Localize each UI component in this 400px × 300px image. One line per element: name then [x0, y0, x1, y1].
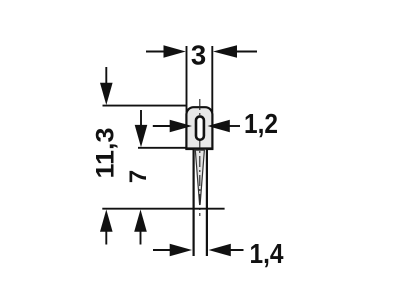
dim 3: left arrow [164, 45, 186, 58]
svg-text:1,4: 1,4 [250, 238, 284, 269]
extension baseline bottom [102, 208, 224, 210]
svg-text:11,3: 11,3 [92, 128, 120, 179]
bottom arrow tail at 106 [105, 228, 107, 245]
slot (oblong hole) [196, 116, 204, 139]
dim 3: right arrow [213, 45, 237, 58]
pin shaft left edge [193, 148, 195, 256]
dim 7: top arrow [135, 125, 148, 147]
pin head body [186, 107, 212, 148]
dim 3: left tail [146, 51, 167, 53]
svg-text:1,2: 1,2 [244, 108, 278, 139]
extension line top (11,3) [103, 105, 187, 107]
dim 1,4: left tail [153, 249, 174, 251]
dim 7: top arrow tail [140, 110, 142, 128]
bottom arrow at 140 [134, 210, 147, 232]
svg-text:3: 3 [191, 40, 206, 71]
dim 1,4: right tail [227, 249, 244, 251]
dim 1,2: left tail [153, 125, 174, 127]
shoulder left [185, 148, 194, 150]
shoulder right [206, 148, 214, 150]
dim 1,2: left arrow [170, 120, 192, 133]
dim 1,4: right arrow [209, 244, 231, 257]
bottom arrow tail at 140 [140, 228, 142, 245]
dim 3: right tail [232, 51, 257, 53]
pin shaft right edge [206, 148, 208, 256]
dim 1,2: right arrow [208, 120, 230, 133]
svg-text:7: 7 [125, 170, 152, 183]
dim 11,3: top arrow [100, 83, 113, 105]
bottom arrow at 106 [100, 210, 113, 232]
extension line middle (7) [138, 147, 186, 149]
centerline [199, 99, 201, 216]
extension line vertical left (for 3) [186, 46, 188, 112]
tapered wedge inside shaft [195, 150, 204, 204]
dim 1,4: left arrow [170, 244, 192, 257]
dim 11,3: top arrow tail [105, 67, 107, 87]
dim 1,2: right tail [226, 125, 240, 127]
extension line vertical right (for 3) [211, 46, 213, 112]
